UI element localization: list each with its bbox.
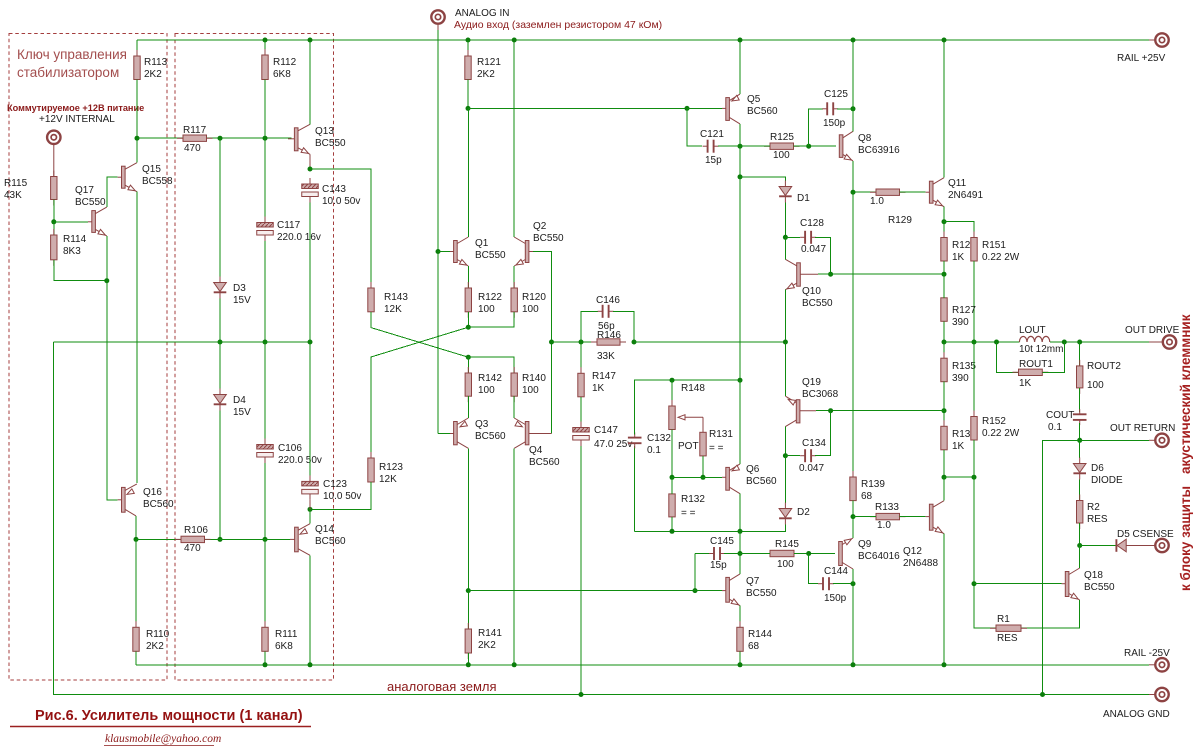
inductor LOUT 10t 12mm [1019,336,1049,342]
svg-text:Q4: Q4 [529,445,543,456]
svg-text:R111: R111 [275,629,298,640]
svg-text:6K8: 6K8 [275,641,293,652]
node C144/Q9 emitter [851,581,856,586]
resistor R141 2K2 [467,591,469,629]
wire: Q15 emitter down to Q16 collector [136,192,138,483]
svg-text:к блоку защиты: к блоку защиты [1178,486,1193,591]
transistor Q5 BC560 [722,107,726,109]
resistor R114 8K3 [53,222,55,235]
wire: R143 to cross diagonal [371,312,468,357]
wire: C132 branch [634,446,636,531]
svg-text:BC63916: BC63916 [858,145,900,156]
svg-text:C143: C143 [322,184,346,195]
transistor Q8 BC63916 [839,135,843,158]
svg-text:BC560: BC560 [475,431,506,442]
svg-text:1K: 1K [592,383,605,394]
wire: Q10 base to R128/R127 node [818,273,944,275]
node R131 bottom/Q6 base line [701,475,706,480]
resistor R135 390 [943,342,945,358]
resistor R144 68 [739,621,741,657]
svg-text:Q6: Q6 [746,464,760,475]
svg-text:0.22 2W: 0.22 2W [982,428,1020,439]
resistor R145 100 [764,553,800,555]
svg-text:BC3068: BC3068 [802,389,839,400]
resistor ROUT2 100 [1079,342,1081,366]
resistor R140 100 [513,367,515,402]
svg-text:68: 68 [861,491,873,502]
svg-text:150p: 150p [823,118,846,129]
svg-text:R1: R1 [997,614,1010,625]
svg-text:BC64016: BC64016 [858,551,900,562]
resistor R133 1.0 [870,516,906,518]
resistor R129 1.0 [853,191,876,193]
wire: R114 bottom to Q17 emitter node [54,260,107,281]
wire: Q3 base stub [438,433,450,435]
trimmer R148 [671,380,673,406]
wire: upper node to R142/R140 tops [468,357,514,373]
svg-text:C132: C132 [647,433,671,444]
svg-text:470: 470 [184,143,201,154]
node ROUT1 right [1062,340,1067,345]
transistor Q18 BC550 [1062,583,1066,585]
svg-text:100: 100 [522,304,539,315]
svg-text:D1: D1 [797,193,810,204]
wire: C147 to analog ground [580,446,582,695]
wire: Q2 base to fb column [533,252,552,434]
svg-text:Q18: Q18 [1084,570,1103,581]
wire: Q12 collector up to R134 node [943,477,945,501]
capacitor C123 10.0 50v [309,342,311,476]
wire: Q13 emitter to node [309,154,311,169]
node R122/R120 bottoms [466,325,471,330]
svg-text:Q9: Q9 [858,539,872,550]
node C117/ground [263,340,268,345]
wire: -25V rail [136,664,1149,666]
zener D4 15V [219,342,221,389]
capacitor COUT 0.1 [1079,388,1081,412]
svg-text:2N6491: 2N6491 [948,190,983,201]
terminal OUT DRIVE [1149,341,1170,343]
svg-text:Q14: Q14 [315,524,334,535]
wire: Q17 base [54,221,88,223]
transistor Q16 BC560 [118,499,122,501]
svg-text:1K: 1K [1019,378,1032,389]
wire: Q10 emitter to output node [784,290,786,342]
svg-text:0.1: 0.1 [1048,422,1062,433]
svg-text:0.22 2W: 0.22 2W [982,252,1020,263]
resistor R111 6K8 [264,539,266,627]
resistor R127 390 [943,292,945,328]
node R125/C125/Q8 base [806,144,811,149]
diode D5 CSENSE [1080,545,1116,547]
resistor R131 [702,426,704,462]
svg-text:BC558: BC558 [142,176,173,187]
svg-text:OUT DRIVE: OUT DRIVE [1125,325,1180,336]
svg-text:BC560: BC560 [143,499,174,510]
capacitor C125 150p [809,109,823,146]
svg-text:C134: C134 [802,438,826,449]
wire: Q5 emitter to +rail [739,40,741,94]
node Q19 base/C134 right [828,408,833,413]
svg-text:43K: 43K [4,190,22,201]
wire: Q18 base line [974,583,1062,585]
node R151/output [972,340,977,345]
node R145/C144/Q9 base [806,551,811,556]
svg-text:15V: 15V [233,295,251,306]
svg-text:Аудио вход (заземлен резисторо: Аудио вход (заземлен резистором 47 кОм) [454,19,662,31]
wire: return to analog ground [1043,440,1080,694]
svg-text:C128: C128 [800,218,824,229]
svg-text:BC550: BC550 [1084,582,1115,593]
svg-text:390: 390 [952,373,969,384]
node R117 line / D3 column [218,136,223,141]
wire: Q17 emitter down to node [106,236,108,281]
resistor R139 68 [852,192,854,477]
node output column [942,340,947,345]
svg-text:10t 12mm: 10t 12mm [1019,344,1063,355]
node Q5 base/C121 [685,106,690,111]
wire: Q5 collector down [739,124,741,146]
svg-text:100: 100 [773,150,790,161]
svg-text:D2: D2 [797,507,810,518]
wire: Q19 base to R135/R134 node [816,410,944,412]
svg-text:33K: 33K [597,351,615,362]
node Q7 base line/C145 [693,588,698,593]
node D3/ground [218,340,223,345]
resistor R110 2K2 [135,539,137,627]
transistor Q15 BC558 [118,176,122,178]
svg-text:100: 100 [478,304,495,315]
resistor R112 6K8 [263,38,268,43]
svg-text:10.0 50v: 10.0 50v [322,196,360,207]
svg-text:BC550: BC550 [475,250,506,261]
svg-text:R152: R152 [982,416,1006,427]
wire: R120 bottom to node [468,312,514,327]
node Q13 emitter / C143 / R143 [308,167,313,172]
svg-text:R120: R120 [522,292,546,303]
wire: OUT RETURN line [1080,439,1149,441]
svg-text:2K2: 2K2 [478,640,496,651]
zener D3 15V [219,138,221,277]
svg-text:POT: POT [678,441,699,452]
svg-text:47.0 25v: 47.0 25v [594,439,632,450]
terminal RAIL -25V [1149,664,1162,666]
svg-text:R139: R139 [861,479,885,490]
svg-text:100: 100 [1087,380,1104,391]
wire: Q7 collector up [739,554,741,574]
transistor Q2 BC550 [525,241,529,263]
node D1 branch [738,174,743,179]
node D4/R106 line [218,537,223,542]
svg-text:D6: D6 [1091,463,1104,474]
node Q3 collector/R141/Q7 base line [466,588,471,593]
resistor R123 12K [370,452,372,488]
node R139/R133/Q9 [851,514,856,519]
resistor R106 470 [136,538,290,540]
transistor Q11 2N6491 [926,191,930,193]
svg-text:100: 100 [522,385,539,396]
svg-text:BC550: BC550 [533,233,564,244]
svg-text:аналоговая земля: аналоговая земля [387,679,497,694]
wire: Q4 emitter to R140 [513,396,515,418]
wire: analog ground bus [53,342,1149,695]
node Q8 emitter/R129/R139 column [851,190,856,195]
wire: Q11 emitter to R128/R151 [943,207,945,222]
resistor R113 2K2 [136,40,138,56]
svg-text:0.047: 0.047 [801,244,826,255]
svg-text:R133: R133 [875,502,899,513]
svg-text:R122: R122 [478,292,502,303]
resistor R115 43K [53,171,55,206]
svg-text:C146: C146 [596,295,620,306]
svg-text:Q5: Q5 [747,94,761,105]
wire: Q9 collector up to R139/R133 node [852,517,854,538]
svg-text:RAIL +25V: RAIL +25V [1117,53,1166,64]
wire: terminal stem [53,144,55,177]
capacitor C146 56p [581,311,598,342]
node Q11 emitter [942,219,947,224]
resistor R151 0.22 2W [944,222,974,238]
node C128/Q10 base line [828,272,833,277]
wire: bias chain x=740 [739,146,741,177]
svg-text:R2: R2 [1087,502,1100,513]
svg-text:C125: C125 [824,89,848,100]
svg-text:Q15: Q15 [142,164,161,175]
wire: Q6 collector down [739,494,741,532]
svg-text:1.0: 1.0 [877,520,891,531]
svg-text:Рис.6. Усилитель мощности (1 к: Рис.6. Усилитель мощности (1 канал) [35,708,303,724]
svg-text:Q19: Q19 [802,377,821,388]
wire: Q8 collector to +rail [852,40,854,131]
node diff emitters lower [466,355,471,360]
svg-text:ANALOG IN: ANALOG IN [455,8,509,19]
wire: Q17 collector to Q15 base [107,177,118,207]
wire: Q3 emitter to R142 [467,396,469,418]
svg-text:C144: C144 [824,566,848,577]
transistor Q9 BC64016 [839,542,843,566]
svg-text:R131: R131 [709,429,733,440]
resistor R142 100 [467,357,469,373]
svg-text:C117: C117 [277,220,301,231]
svg-text:RES: RES [997,633,1018,644]
svg-text:0.047: 0.047 [799,463,824,474]
svg-text:BC560: BC560 [315,536,346,547]
capacitor C145 15p [695,553,710,555]
svg-text:BC550: BC550 [315,138,346,149]
node ground/C143-C123 column [308,340,313,345]
transistor Q14 BC560 [290,538,295,540]
wire: Q3 collector down to R141 node [467,448,469,590]
svg-text:15V: 15V [233,407,251,418]
node R135/R134/Q19 base [942,408,947,413]
svg-text:+12V INTERNAL: +12V INTERNAL [39,114,115,125]
node R128/R127/Q10 base [942,272,947,277]
node COUT/OUT RETURN [1077,438,1082,443]
dashed box: stabilizer control key block [9,34,167,681]
diode D6 [1079,440,1081,458]
wire: Q6 emitter up to 740 column [739,380,741,464]
wire: output node to LOUT [944,341,1019,343]
transistor Q17 BC550 [88,221,92,223]
svg-text:Ключ управления: Ключ управления [17,47,127,62]
wire: R152 column down to R1/Q18 base [974,477,996,628]
svg-text:R143: R143 [384,292,408,303]
svg-text:D5 CSENSE: D5 CSENSE [1117,529,1174,540]
svg-text:Q8: Q8 [858,133,872,144]
capacitor C147 47.0 25v [580,397,582,422]
svg-text:150p: 150p [824,593,847,604]
wire: Q14 collector to node [309,509,311,523]
svg-text:R123: R123 [379,462,403,473]
svg-text:Q11: Q11 [948,178,967,189]
svg-text:Коммутируемое +12В питание: Коммутируемое +12В питание [7,103,144,113]
terminal ANALOG IN [437,17,439,30]
transistor Q4 BC560 [525,422,529,445]
svg-text:2K2: 2K2 [477,69,495,80]
R148 wiper to R131 [680,416,703,418]
svg-text:стабилизатором: стабилизатором [17,65,119,80]
svg-text:BC550: BC550 [75,197,106,208]
svg-text:D4: D4 [233,395,246,406]
wire: Q7 emitter to R144 [739,606,741,628]
svg-text:R145: R145 [775,539,799,550]
svg-text:OUT RETURN: OUT RETURN [1110,423,1175,434]
wire: Q1 base stub [438,251,450,253]
node D1/C128/Q10 collector [783,235,788,240]
svg-text:R148: R148 [681,383,705,394]
wire: Q19 emitter up to output node [784,342,786,396]
dashed box: second block [175,34,334,681]
node C125/Q8 collector line [851,106,856,111]
svg-text:R135: R135 [952,361,976,372]
node Q18 base line [972,581,977,586]
capacitor C144 150p [809,554,818,584]
wire: Q14 emitter to -rail [309,555,311,665]
node R115/R114/Q17 base [51,219,56,224]
wire: Q6 base line [672,476,722,478]
terminal ANALOG GND [1149,694,1162,696]
svg-text:10.0 50v: 10.0 50v [323,491,361,502]
transistor Q19 BC3068 [796,400,800,423]
svg-text:Q13: Q13 [315,126,334,137]
node R121/Q1 collector [466,106,471,111]
wire: Q16 emitter to R106 node [135,516,137,540]
resistor R120 100 [513,282,515,318]
svg-text:100: 100 [777,559,794,570]
capacitor C106 220.0 50v [264,342,266,439]
resistor R134 1K [943,411,945,427]
svg-text:DIODE: DIODE [1091,475,1123,486]
node R113/R117/Q15 [135,136,140,141]
svg-text:390: 390 [952,317,969,328]
svg-text:1K: 1K [952,252,965,263]
svg-text:= =: = = [681,508,696,519]
svg-text:470: 470 [184,543,201,554]
wire: LOUT to OUT DRIVE [1050,341,1149,343]
wire: Q15 collector up to R113 node [136,138,138,163]
svg-text:ANALOG GND: ANALOG GND [1103,709,1170,720]
svg-text:Q2: Q2 [533,221,547,232]
transistor Q3 BC560 [450,433,454,435]
svg-text:R112: R112 [273,57,297,68]
transistor Q1 BC550 [436,249,441,254]
capacitor C121 15p [687,108,702,146]
wire: Q4 collector to -rail [513,448,515,665]
svg-text:R129: R129 [888,215,912,226]
svg-text:12K: 12K [379,474,397,485]
svg-text:68: 68 [748,641,760,652]
node Q17 emitter / R114 [104,278,109,283]
svg-text:COUT: COUT [1046,410,1074,421]
svg-text:15p: 15p [710,560,727,571]
svg-text:RAIL -25V: RAIL -25V [1124,648,1170,659]
wire: +25V rail [137,39,1149,41]
wire: Q10 collector up to D1 node [784,237,786,259]
svg-text:0.1: 0.1 [647,445,661,456]
svg-text:klausmobile@yahoo.com: klausmobile@yahoo.com [105,733,221,745]
resistor R117 470 [137,137,292,139]
wire: Q2 collector to +rail [513,40,515,237]
svg-text:BC550: BC550 [802,298,833,309]
transistor Q7 BC550 [722,590,726,592]
node R117 line / C117 column [263,136,268,141]
wire: local ground segment [53,341,310,343]
node Q6 collector/D2 line [738,529,743,534]
svg-text:D3: D3 [233,283,246,294]
transistor Q13 BC550 [288,138,295,140]
node R134/R152/Q12 collector [942,475,947,480]
wire: cross diagonal to R123 [371,327,468,458]
svg-text:R125: R125 [770,132,794,143]
resistor R132 [671,488,673,523]
wire: R134 node to R152 column [944,476,974,478]
svg-text:R132: R132 [681,494,705,505]
svg-text:= =: = = [709,443,724,454]
resistor ROUT1 1K [997,342,1019,372]
wire: Q9 emitter down to -rail [852,569,854,665]
node fb column / fb line [549,340,554,345]
svg-text:BC560: BC560 [747,106,778,117]
svg-text:12K: 12K [384,304,402,315]
svg-text:Q3: Q3 [475,419,489,430]
svg-text:Q1: Q1 [475,238,489,249]
svg-text:акустический клеммник: акустический клеммник [1178,314,1193,474]
terminal +12V INTERNAL [47,131,60,144]
wire: Q12 emitter to -rail [943,534,945,665]
svg-text:R114: R114 [63,234,87,245]
svg-text:R151: R151 [982,240,1006,251]
svg-text:Q7: Q7 [746,576,760,587]
svg-text:BC560: BC560 [529,457,560,468]
svg-text:56p: 56p [598,321,615,332]
svg-text:C106: C106 [278,443,302,454]
svg-text:BC560: BC560 [746,476,777,487]
resistor R152 0.22 2W [973,342,975,417]
wire: fb node line [552,341,598,343]
resistor R2 RES [1079,495,1081,530]
diode D1 [740,177,785,181]
wire: Q11 collector to +rail [943,40,945,178]
svg-text:Q10: Q10 [802,286,821,297]
resistor R1 RES [990,627,1027,629]
wire: node down to Q16 base [107,281,118,500]
node fb/R147/C146 left [579,340,584,345]
resistor R128 1K [943,222,945,238]
wire: R115 to node [53,200,55,222]
node C145/R145/Q7 collector [738,551,743,556]
resistor R143 12K [370,282,372,318]
node Q10 emitter/output [783,340,788,345]
